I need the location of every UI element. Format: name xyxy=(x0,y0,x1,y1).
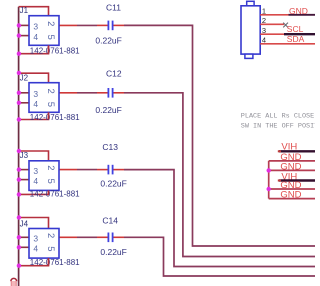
connector J4 xyxy=(20,219,81,267)
connector J5 header body xyxy=(241,1,260,58)
svg-text:4: 4 xyxy=(33,244,38,254)
wire GND row5 xyxy=(269,188,315,190)
svg-text:142-0761-881: 142-0761-881 xyxy=(30,113,80,122)
junction dot J2 pin3 xyxy=(17,91,21,95)
svg-text:C14: C14 xyxy=(102,215,118,225)
wire J2 pin4 stub xyxy=(19,102,29,104)
svg-text:J3: J3 xyxy=(20,151,29,160)
svg-text:5: 5 xyxy=(45,179,56,184)
wire J1 pin4 stub xyxy=(19,35,29,37)
svg-text:J1: J1 xyxy=(20,6,29,15)
wire C11 net to bottom right xyxy=(124,25,315,246)
junction dot J3 top loop xyxy=(17,149,21,153)
net label Q bottom left off-page symbol xyxy=(11,278,17,286)
wire J1 bottom loop overlay xyxy=(48,45,50,53)
wire C14 net to bottom right xyxy=(124,237,315,276)
wire pin3 SCL net xyxy=(260,33,284,35)
svg-text:GND: GND xyxy=(289,6,308,16)
svg-text:4: 4 xyxy=(33,99,38,109)
wire GND row3 xyxy=(269,169,315,171)
wire pin4 SDA net xyxy=(260,43,315,45)
wire C12 right lead xyxy=(114,92,125,94)
capacitor C12 xyxy=(95,69,121,115)
connector J1 xyxy=(20,6,81,56)
junction dot GND row3 xyxy=(267,168,271,172)
svg-text:3: 3 xyxy=(33,22,38,32)
svg-text:PLACE ALL Rs CLOSE T: PLACE ALL Rs CLOSE T xyxy=(241,113,315,121)
capacitor C14 xyxy=(100,215,126,257)
junction dot J1 bottom loop xyxy=(17,52,21,56)
wire J3 pin3 stub xyxy=(19,169,29,171)
junction dot J3 pin3 xyxy=(17,167,21,171)
wire GND row6 xyxy=(269,198,315,200)
wire J2 pin3 stub xyxy=(19,92,29,94)
junction dot J4 top loop xyxy=(17,215,21,219)
capacitor C11 xyxy=(95,2,121,45)
svg-text:SCL: SCL xyxy=(287,24,304,34)
wire J1 pin3 stub xyxy=(19,24,29,26)
svg-text:0.22uF: 0.22uF xyxy=(95,105,121,115)
junction dot J2 pin4 xyxy=(17,101,21,105)
wire C12 net to bottom right xyxy=(124,93,315,257)
connector J2 xyxy=(20,74,81,122)
wire J2 pin1 to C12 xyxy=(59,92,77,94)
svg-text:C13: C13 xyxy=(102,142,118,152)
junction dot J3 pin4 xyxy=(17,177,21,181)
wire J3 top loop xyxy=(19,151,49,161)
no-connect X pin2 xyxy=(283,23,288,28)
svg-text:4: 4 xyxy=(33,32,38,42)
svg-text:J2: J2 xyxy=(20,74,29,83)
junction dot J4 pin3 xyxy=(17,235,21,239)
junction dot J1 pin4 xyxy=(17,33,21,37)
svg-text:2: 2 xyxy=(45,21,56,26)
note text placement xyxy=(241,113,320,131)
svg-text:142-0761-881: 142-0761-881 xyxy=(30,258,80,267)
svg-text:2: 2 xyxy=(45,165,56,170)
wire J2 bottom loop xyxy=(19,112,49,119)
svg-text:J4: J4 xyxy=(20,219,29,228)
capacitor C13 xyxy=(100,142,126,189)
svg-text:3: 3 xyxy=(33,166,38,176)
wire C13 right lead xyxy=(114,169,125,171)
wire J3 pin1 to C13 xyxy=(59,169,77,171)
wire J3 pin4 stub xyxy=(19,179,29,181)
wire J4 bottom loop overlay xyxy=(48,258,50,266)
wire J2 bottom loop overlay xyxy=(48,112,50,119)
wire J4 pin1 to C14 xyxy=(59,236,77,238)
svg-text:5: 5 xyxy=(45,102,56,107)
svg-text:2: 2 xyxy=(45,89,56,94)
wire GND bus vertical left xyxy=(18,7,20,286)
wire GND group left vertical xyxy=(268,161,270,199)
junction dot J3 bottom loop xyxy=(17,192,21,196)
svg-text:SW IN THE OFF POSITI: SW IN THE OFF POSITI xyxy=(241,123,315,131)
svg-text:5: 5 xyxy=(45,246,56,251)
wire J2 top loop xyxy=(19,73,49,83)
svg-text:142-0761-881: 142-0761-881 xyxy=(30,46,80,55)
wire C11 right lead xyxy=(114,24,125,26)
wire VIH row1 xyxy=(279,150,315,152)
wire J1 top loop xyxy=(19,7,49,16)
svg-text:4: 4 xyxy=(33,176,38,186)
svg-text:5: 5 xyxy=(45,35,56,40)
svg-text:0.22uF: 0.22uF xyxy=(100,247,126,257)
wire pin1 GND net xyxy=(260,14,288,16)
wire J3 bottom loop overlay xyxy=(48,190,50,194)
junction dot J4 pin4 xyxy=(17,245,21,249)
svg-text:142-0761-881: 142-0761-881 xyxy=(30,190,80,199)
wire J1 pin1 to C11 xyxy=(59,24,77,26)
wire J4 top loop xyxy=(19,218,49,229)
svg-text:3: 3 xyxy=(33,89,38,99)
wire J4 bottom loop xyxy=(19,258,49,266)
wire GND row2 xyxy=(269,160,315,162)
connector J3 xyxy=(20,151,81,199)
svg-text:C12: C12 xyxy=(106,69,122,79)
junction dot J2 top loop xyxy=(17,71,21,75)
wire J3 bottom loop xyxy=(19,190,49,194)
wire C14 right lead xyxy=(114,236,125,238)
junction dot GND row5 xyxy=(267,187,271,191)
wire VIH row4 xyxy=(279,179,315,181)
junction dot J1 pin3 xyxy=(17,23,21,27)
wire pin2 stub no-connect xyxy=(260,23,284,25)
wire J4 pin3 stub xyxy=(19,236,29,238)
wire C13 net to bottom right xyxy=(124,170,315,267)
svg-text:0.22uF: 0.22uF xyxy=(100,179,126,189)
svg-text:2: 2 xyxy=(45,233,56,238)
junction dot J2 bottom loop xyxy=(17,117,21,121)
wire J1 bottom loop xyxy=(19,45,49,53)
wire J4 pin4 stub xyxy=(19,246,29,248)
svg-text:C11: C11 xyxy=(106,2,121,12)
junction dot J4 bottom loop xyxy=(17,264,21,268)
svg-text:SDA: SDA xyxy=(287,34,305,44)
svg-text:0.22uF: 0.22uF xyxy=(95,36,121,46)
svg-text:3: 3 xyxy=(33,234,38,244)
